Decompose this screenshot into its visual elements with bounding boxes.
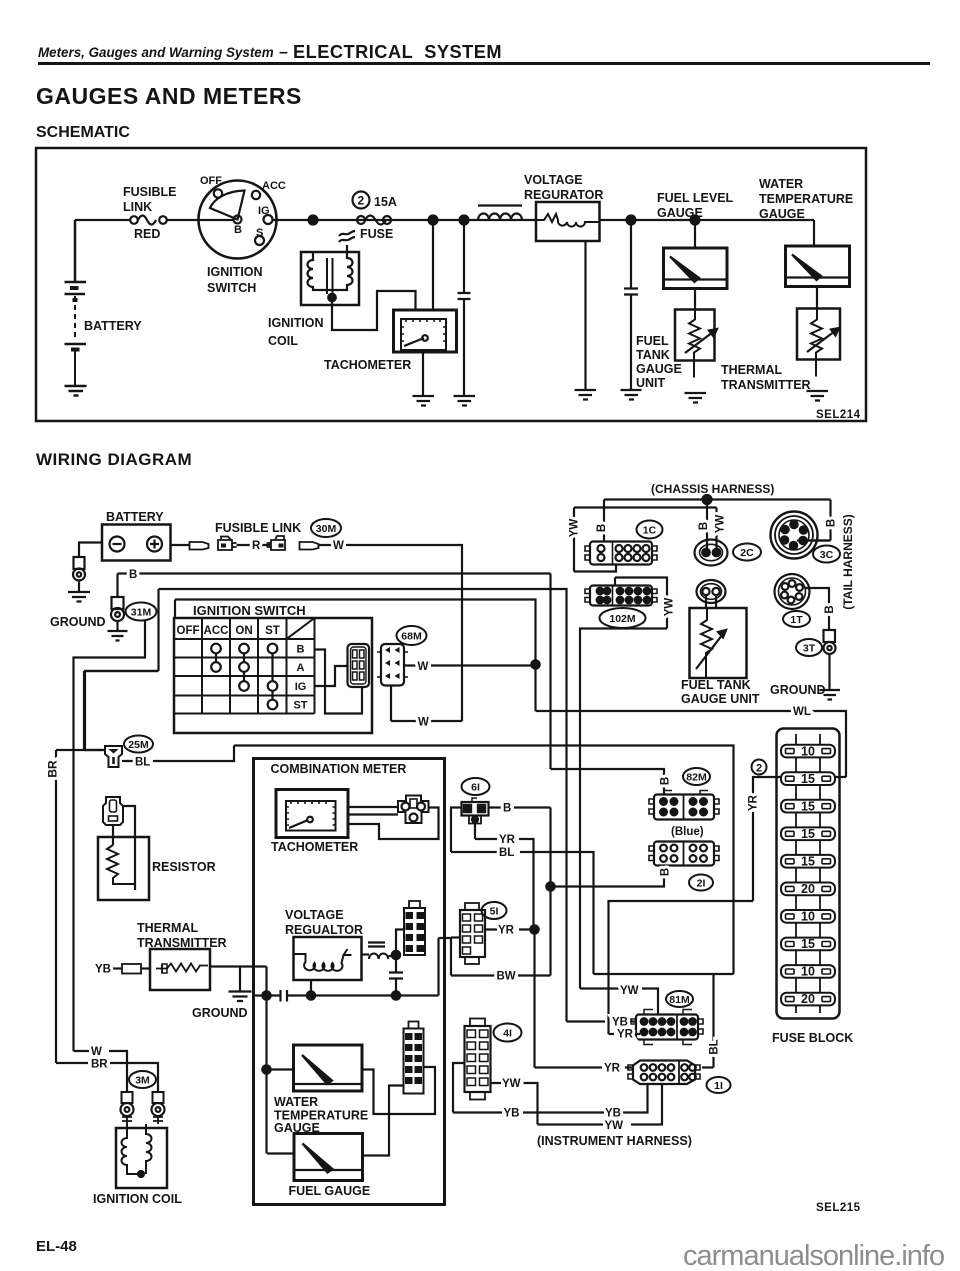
water temperature gauge M3 bbox=[813, 220, 815, 246]
fusible link holder 2 bbox=[267, 536, 286, 550]
resistor R3 bbox=[98, 837, 149, 900]
svg-text:20: 20 bbox=[801, 992, 815, 1006]
svg-text:B: B bbox=[234, 224, 242, 236]
wire YR to 1I bbox=[535, 930, 634, 1068]
wire BL 6I bbox=[451, 808, 594, 975]
svg-text:FUEL LEVEL: FUEL LEVEL bbox=[657, 191, 734, 205]
svg-text:YR: YR bbox=[499, 834, 516, 846]
svg-text:COIL: COIL bbox=[268, 334, 298, 348]
wire YB 4I bbox=[453, 1063, 648, 1113]
svg-text:YB: YB bbox=[504, 1108, 520, 1120]
svg-text:YW: YW bbox=[569, 519, 581, 538]
svg-text:15: 15 bbox=[801, 772, 815, 786]
fuse F1 15A bbox=[357, 216, 365, 224]
svg-text:YW: YW bbox=[620, 985, 639, 997]
svg-text:ON: ON bbox=[235, 625, 252, 637]
svg-text:S: S bbox=[256, 227, 263, 239]
svg-text:THERMAL: THERMAL bbox=[721, 363, 782, 377]
svg-text:GAUGE: GAUGE bbox=[636, 362, 682, 376]
wire FG to connector bbox=[363, 1086, 404, 1156]
svg-text:15: 15 bbox=[801, 827, 815, 841]
ground battery schematic bbox=[65, 386, 87, 396]
svg-text:IGNITION: IGNITION bbox=[268, 316, 324, 330]
connector 2C bbox=[695, 540, 728, 566]
rotated harness labels bbox=[46, 514, 856, 777]
ring terminal W coil bbox=[122, 1092, 133, 1103]
ground fuel tank unit bbox=[685, 393, 707, 403]
wire B to 2I bbox=[551, 876, 665, 887]
svg-text:W: W bbox=[418, 717, 429, 729]
wire B battery col bbox=[551, 574, 665, 795]
svg-text:ELECTRICAL SYSTEM: ELECTRICAL SYSTEM bbox=[293, 42, 502, 62]
svg-text:Meters, Gauges and Warning Sys: Meters, Gauges and Warning System bbox=[38, 45, 274, 60]
svg-text:TANK: TANK bbox=[636, 348, 670, 362]
ground regulator bbox=[575, 390, 597, 400]
svg-text:B: B bbox=[826, 519, 838, 527]
wire chassis harness main bbox=[604, 500, 831, 542]
wire B 6I down bbox=[489, 808, 551, 976]
water temperature gauge M5 bbox=[294, 1045, 363, 1091]
svg-text:BATTERY: BATTERY bbox=[84, 319, 142, 333]
wire B 2C bbox=[706, 500, 708, 549]
svg-text:B: B bbox=[698, 522, 710, 530]
connector ovals bbox=[124, 519, 840, 1093]
battery B1 bbox=[65, 220, 87, 386]
wire table IG row bbox=[315, 666, 348, 686]
node condenser feed bbox=[460, 216, 469, 225]
ignition switch table bbox=[174, 618, 372, 733]
wire VR to connector bbox=[396, 930, 404, 956]
svg-text:15: 15 bbox=[801, 937, 815, 951]
fuse ratings bbox=[801, 745, 815, 1007]
svg-text:25M: 25M bbox=[128, 739, 149, 751]
svg-text:YB: YB bbox=[95, 964, 111, 976]
svg-text:IG: IG bbox=[295, 681, 307, 693]
thermal transmitter R2 bbox=[816, 287, 818, 309]
svg-text:TACHOMETER: TACHOMETER bbox=[271, 840, 358, 854]
inductor L1 bbox=[478, 204, 522, 206]
wire WL bbox=[536, 711, 847, 777]
wire 31M leader W bbox=[74, 620, 146, 1051]
wire ign switch W branch bbox=[85, 589, 159, 750]
svg-text:OFF: OFF bbox=[177, 625, 200, 637]
ground condenser 1 bbox=[454, 396, 476, 406]
connector 2I bbox=[654, 842, 714, 866]
wire W to ignition coil bbox=[109, 1051, 127, 1092]
svg-text:3M: 3M bbox=[135, 1075, 150, 1087]
svg-text:YR: YR bbox=[617, 1029, 634, 1041]
svg-text:GROUND: GROUND bbox=[50, 615, 106, 629]
svg-text:3C: 3C bbox=[820, 549, 834, 561]
connector meter side of 5I bbox=[404, 908, 425, 955]
svg-text:YW: YW bbox=[502, 1078, 521, 1090]
node B2I bbox=[546, 882, 554, 890]
svg-text:B: B bbox=[596, 524, 608, 532]
wire BL 25M bbox=[122, 746, 734, 975]
svg-text:(TAIL HARNESS): (TAIL HARNESS) bbox=[841, 514, 855, 610]
wire BR to ignition coil bbox=[110, 1063, 158, 1092]
wire table B row bbox=[315, 650, 363, 714]
svg-text:82M: 82M bbox=[686, 772, 707, 784]
ground condenser 2 bbox=[621, 390, 642, 400]
capacitor C2 bbox=[624, 220, 638, 390]
wire W 68M to junction bbox=[404, 664, 536, 666]
svg-text:GAUGE: GAUGE bbox=[274, 1121, 320, 1135]
wire W 68M bottom bbox=[391, 686, 462, 722]
svg-text:BW: BW bbox=[497, 971, 516, 983]
svg-text:YB: YB bbox=[605, 1108, 621, 1120]
svg-text:15: 15 bbox=[801, 800, 815, 814]
wire WTG to connector bbox=[362, 1067, 435, 1114]
node W68M junction bbox=[531, 660, 539, 668]
svg-text:30M: 30M bbox=[316, 523, 337, 535]
wire YW chassis bbox=[574, 508, 717, 572]
svg-text:(Blue): (Blue) bbox=[671, 826, 704, 838]
connector 102M bbox=[590, 586, 652, 606]
wire W to right column bbox=[319, 545, 463, 721]
ignition switch table labels bbox=[177, 625, 308, 712]
svg-text:SEL215: SEL215 bbox=[816, 1202, 861, 1214]
fuel level gauge M2 bbox=[694, 220, 696, 248]
connector 3T bbox=[824, 630, 836, 642]
svg-text:YW: YW bbox=[605, 1120, 624, 1132]
wire color labels on wires bbox=[91, 540, 811, 1132]
svg-text:WATER: WATER bbox=[759, 177, 803, 191]
svg-text:REGURATOR: REGURATOR bbox=[524, 188, 603, 202]
ignition coil T2 bbox=[122, 1117, 163, 1124]
ground thermal transmitter bbox=[807, 391, 829, 401]
wire B tail bbox=[805, 588, 829, 630]
svg-text:2: 2 bbox=[756, 763, 762, 775]
node YR join bbox=[530, 925, 538, 933]
node fuel level gauge bbox=[691, 216, 700, 225]
svg-text:FUEL GAUGE: FUEL GAUGE bbox=[289, 1184, 371, 1198]
svg-text:UNIT: UNIT bbox=[636, 376, 666, 390]
thermal transmitter R4 bbox=[111, 967, 122, 969]
tachometer M4 bbox=[276, 790, 348, 838]
svg-text:(CHASSIS HARNESS): (CHASSIS HARNESS) bbox=[651, 482, 774, 496]
svg-text:2: 2 bbox=[358, 194, 365, 208]
connector 4I bbox=[465, 1026, 491, 1092]
svg-text:TRANSMITTER: TRANSMITTER bbox=[137, 936, 227, 950]
svg-text:20: 20 bbox=[801, 882, 815, 896]
svg-text:EL-48: EL-48 bbox=[36, 1238, 77, 1255]
svg-text:68M: 68M bbox=[401, 631, 422, 643]
svg-text:BATTERY: BATTERY bbox=[106, 510, 164, 524]
ground thermal transmitter 2 bbox=[229, 992, 252, 1002]
svg-text:LINK: LINK bbox=[123, 200, 152, 214]
svg-text:BL: BL bbox=[709, 1039, 721, 1054]
svg-text:YB: YB bbox=[612, 1017, 628, 1029]
svg-text:TACHOMETER: TACHOMETER bbox=[324, 358, 411, 372]
svg-text:VOLTAGE: VOLTAGE bbox=[524, 173, 583, 187]
wire YW 4I bbox=[491, 1083, 663, 1125]
svg-text:81M: 81M bbox=[669, 994, 690, 1006]
fuse block bbox=[777, 729, 840, 1019]
node fuel gauge feed bbox=[627, 216, 636, 225]
svg-text:FUSIBLE LINK: FUSIBLE LINK bbox=[215, 521, 301, 535]
svg-text:carmanualsonline.info: carmanualsonline.info bbox=[683, 1240, 944, 1271]
svg-text:FUEL TANK: FUEL TANK bbox=[681, 678, 751, 692]
svg-text:YR: YR bbox=[604, 1063, 621, 1075]
wire battery plus bbox=[171, 544, 190, 546]
svg-text:B: B bbox=[824, 605, 836, 613]
ignition switch dial S1 bbox=[199, 181, 277, 259]
connector 68M bbox=[381, 644, 404, 686]
terminal lug b bbox=[300, 542, 319, 550]
svg-text:GROUND: GROUND bbox=[770, 683, 826, 697]
svg-text:4I: 4I bbox=[503, 1028, 512, 1040]
node VR out bbox=[392, 951, 400, 959]
wire resistor leads bbox=[113, 806, 135, 890]
svg-text:3T: 3T bbox=[803, 643, 816, 655]
svg-text:COMBINATION METER: COMBINATION METER bbox=[271, 762, 407, 776]
fuses bbox=[781, 745, 835, 1006]
connector 5I bbox=[460, 910, 485, 957]
svg-text:YR: YR bbox=[498, 925, 515, 937]
voltage regulator VR1 bbox=[536, 202, 600, 241]
wire thermal transmitter to ground bbox=[210, 967, 267, 992]
svg-text:BR: BR bbox=[91, 1059, 108, 1071]
svg-text:RED: RED bbox=[134, 227, 160, 241]
svg-text:RESISTOR: RESISTOR bbox=[152, 860, 216, 874]
wire rail to gauges bbox=[267, 996, 295, 1154]
svg-text:SEL214: SEL214 bbox=[816, 409, 861, 421]
svg-text:BL: BL bbox=[135, 757, 150, 769]
svg-text:BR: BR bbox=[46, 760, 60, 778]
capacitor C1 bbox=[458, 220, 471, 396]
ignition coil T1 bbox=[301, 252, 359, 305]
svg-text:W: W bbox=[91, 1046, 102, 1058]
wire coil to tachometer bbox=[332, 291, 416, 330]
svg-text:2I: 2I bbox=[697, 878, 706, 890]
svg-text:6I: 6I bbox=[471, 782, 480, 794]
svg-text:31M: 31M bbox=[131, 607, 152, 619]
connector tach meter side bbox=[398, 796, 429, 824]
svg-text:FUSE: FUSE bbox=[360, 227, 393, 241]
svg-text:TRANSMITTER: TRANSMITTER bbox=[721, 378, 811, 392]
svg-text:VOLTAGE: VOLTAGE bbox=[285, 908, 344, 922]
tachometer M1 bbox=[394, 310, 457, 352]
oval labels bbox=[128, 523, 833, 1092]
connector fuel tank oval bbox=[697, 580, 726, 603]
svg-text:IGNITION COIL: IGNITION COIL bbox=[93, 1192, 182, 1206]
svg-text:FUSE BLOCK: FUSE BLOCK bbox=[772, 1031, 853, 1045]
connector 81M bbox=[636, 1015, 698, 1040]
wire ign to fuse bbox=[309, 216, 318, 225]
svg-text:WIRING DIAGRAM: WIRING DIAGRAM bbox=[36, 450, 192, 469]
voltage regulator VR2 bbox=[294, 937, 362, 980]
svg-text:5I: 5I bbox=[490, 906, 499, 918]
wire YB YR hook 81M bbox=[567, 1022, 641, 1035]
svg-text:REGUALTOR: REGUALTOR bbox=[285, 923, 363, 937]
svg-text:OFF: OFF bbox=[200, 175, 222, 187]
svg-text:IGNITION SWITCH: IGNITION SWITCH bbox=[193, 603, 306, 618]
wiring diagram big labels bbox=[50, 482, 861, 1214]
wire W ign to YB column bbox=[159, 589, 567, 1022]
svg-text:B: B bbox=[297, 644, 305, 656]
svg-text:10: 10 bbox=[801, 910, 815, 924]
svg-text:YW: YW bbox=[715, 515, 727, 534]
svg-text:SWITCH: SWITCH bbox=[207, 281, 256, 295]
svg-text:TEMPERATURE: TEMPERATURE bbox=[759, 192, 853, 206]
ground tail bbox=[820, 690, 841, 700]
ground tachometer bbox=[413, 352, 435, 406]
svg-text:1I: 1I bbox=[714, 1080, 723, 1092]
connector 1I bbox=[633, 1061, 695, 1085]
wire node3 to WL bbox=[175, 600, 536, 712]
fusible link holder 1 bbox=[218, 537, 237, 551]
svg-text:GAUGE: GAUGE bbox=[759, 207, 805, 221]
svg-text:THERMAL: THERMAL bbox=[137, 921, 198, 935]
connector 3C bbox=[771, 512, 818, 559]
svg-text:SCHEMATIC: SCHEMATIC bbox=[36, 124, 130, 141]
connector ISW side bbox=[348, 644, 370, 687]
connector resistor lead bbox=[103, 797, 123, 825]
schematic labels bbox=[84, 173, 861, 421]
wire 5I bracket BW bbox=[451, 938, 496, 976]
fusible link FL bbox=[130, 216, 138, 224]
svg-text:GROUND: GROUND bbox=[192, 1006, 248, 1020]
svg-text:2C: 2C bbox=[740, 547, 754, 559]
svg-text:BL: BL bbox=[499, 847, 514, 859]
combination meter box bbox=[254, 759, 445, 1205]
wire YR 5I bbox=[485, 928, 535, 930]
svg-text:A: A bbox=[297, 662, 305, 674]
svg-text:R: R bbox=[252, 540, 261, 552]
meter ground rail bbox=[254, 938, 452, 996]
terminal lug a bbox=[190, 542, 209, 550]
svg-text:YR: YR bbox=[748, 794, 760, 811]
svg-text:IGNITION: IGNITION bbox=[207, 265, 263, 279]
fuel tank gauge unit R1 bbox=[694, 289, 696, 310]
battery B2 bbox=[102, 525, 171, 561]
table contact circles bbox=[211, 644, 221, 654]
svg-text:10: 10 bbox=[801, 745, 815, 759]
connector 6I bbox=[462, 802, 489, 816]
fuel tank gauge unit R5 bbox=[690, 608, 747, 678]
svg-text:10: 10 bbox=[801, 965, 815, 979]
wire 25M left bbox=[84, 671, 159, 750]
wire YR fuse to YB bbox=[609, 777, 782, 1022]
svg-text:ACC: ACC bbox=[204, 625, 229, 637]
wire BW to B column bbox=[518, 974, 551, 976]
svg-text:GAUGE UNIT: GAUGE UNIT bbox=[681, 692, 760, 706]
connector 31M bbox=[112, 597, 124, 609]
ring terminal BR coil bbox=[153, 1092, 164, 1103]
svg-text:W: W bbox=[333, 540, 344, 552]
wire YR 6I bbox=[475, 824, 534, 930]
inductor L2 bbox=[368, 943, 385, 947]
connector battery ground bbox=[74, 557, 85, 569]
svg-text:GAUGES AND METERS: GAUGES AND METERS bbox=[36, 83, 302, 109]
svg-text:W: W bbox=[418, 661, 429, 673]
capacitor C3 bbox=[389, 955, 403, 996]
connector meter side of 4I bbox=[404, 1029, 424, 1094]
svg-text:15A: 15A bbox=[374, 195, 397, 209]
wire tach to connector bbox=[348, 807, 439, 839]
connector 25M bbox=[105, 746, 122, 767]
svg-text:(INSTRUMENT HARNESS): (INSTRUMENT HARNESS) bbox=[537, 1134, 692, 1148]
connector 1T bbox=[775, 574, 810, 609]
ground 31M bbox=[108, 631, 128, 641]
svg-text:15: 15 bbox=[801, 855, 815, 869]
wire main bus bbox=[75, 219, 814, 221]
connector 82M bbox=[654, 795, 714, 820]
svg-text:YW: YW bbox=[664, 598, 676, 617]
svg-text:WL: WL bbox=[793, 706, 811, 718]
wire battery minus to ground bbox=[79, 543, 102, 558]
rotated wire labels bbox=[569, 515, 838, 1055]
svg-text:WATER: WATER bbox=[274, 1095, 318, 1109]
svg-text:FUSIBLE: FUSIBLE bbox=[123, 185, 176, 199]
svg-text:ACC: ACC bbox=[262, 180, 286, 192]
svg-text:GAUGE: GAUGE bbox=[657, 206, 703, 220]
antenna squiggle bbox=[339, 231, 355, 252]
svg-text:–: – bbox=[279, 44, 288, 61]
svg-text:IG: IG bbox=[258, 205, 270, 217]
ground battery bbox=[68, 592, 90, 602]
svg-text:B: B bbox=[129, 569, 137, 581]
svg-text:ST: ST bbox=[265, 625, 280, 637]
svg-text:ST: ST bbox=[293, 700, 307, 712]
wire B battery to right column bbox=[118, 574, 551, 598]
wire YW 102M bbox=[580, 578, 667, 1016]
svg-text:1C: 1C bbox=[643, 525, 657, 537]
svg-text:B: B bbox=[660, 777, 672, 785]
svg-text:1T: 1T bbox=[790, 614, 803, 626]
wire BL joint to 1I bbox=[594, 974, 734, 1068]
svg-text:102M: 102M bbox=[609, 613, 636, 625]
wire R link bbox=[237, 544, 271, 546]
connector 1C bbox=[590, 542, 652, 565]
svg-text:FUEL: FUEL bbox=[636, 334, 669, 348]
svg-text:B: B bbox=[660, 868, 672, 876]
wire BR tee bbox=[56, 750, 102, 1063]
schematic frame bbox=[36, 148, 866, 421]
node ign coil feed bbox=[429, 216, 438, 225]
fuel gauge M6 bbox=[294, 1134, 363, 1181]
svg-text:B: B bbox=[503, 803, 511, 815]
